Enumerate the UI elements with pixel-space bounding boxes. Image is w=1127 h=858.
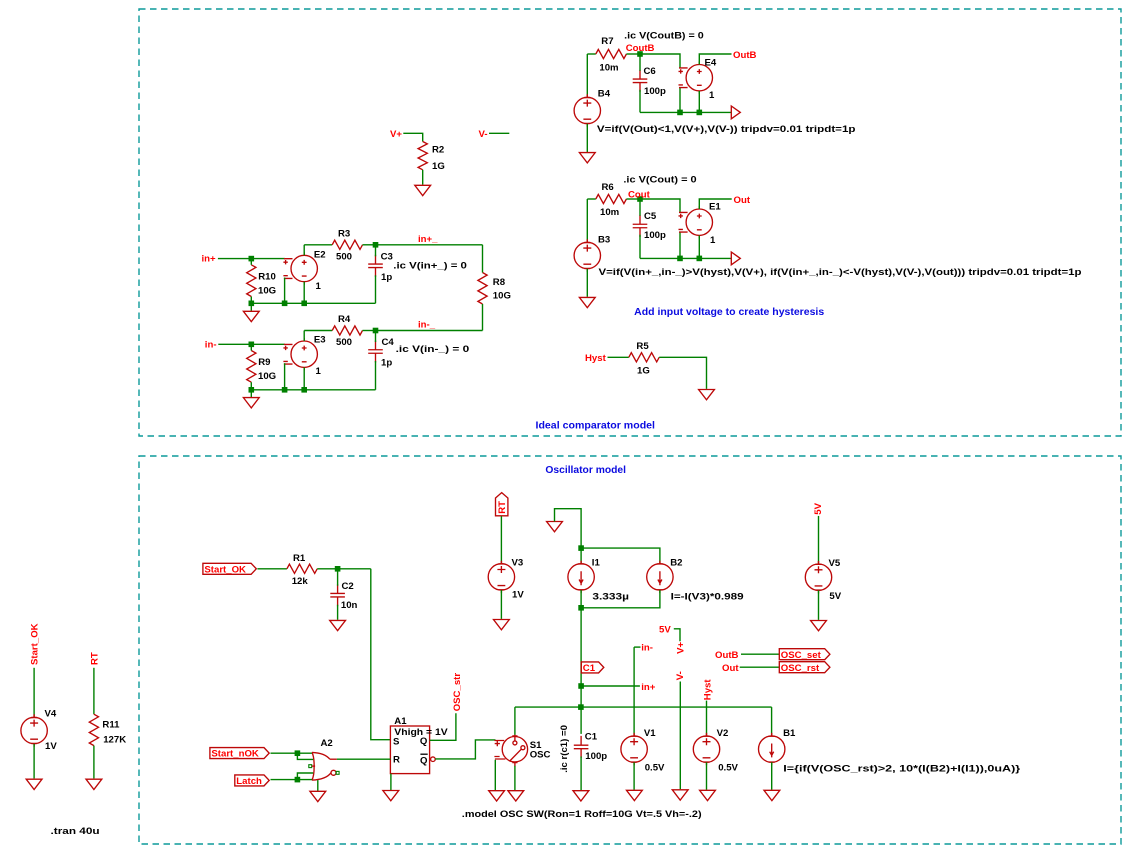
ground V4: [26, 779, 42, 789]
resistor R9: [247, 351, 256, 383]
vcvs E4: [679, 62, 713, 94]
wire in+ to E2 control+: [251, 258, 284, 260]
ground B3: [579, 297, 595, 307]
wire to B2 top: [581, 548, 660, 564]
junction in+_: [373, 242, 379, 248]
junction rail E1 out-: [697, 256, 703, 262]
wire R9 bottom lead: [250, 382, 252, 390]
vcvs E1: [679, 206, 713, 238]
ground S1: [508, 791, 524, 801]
ground V- net: [672, 790, 688, 800]
vcvs E2: [283, 252, 317, 284]
wire E4 out+ to OutB: [699, 54, 731, 64]
voltage source V4: [21, 714, 47, 746]
wire E2 out- down: [303, 282, 305, 304]
svg-text:R8: R8: [493, 277, 506, 288]
wire B3- to ground: [586, 269, 588, 297]
current source B2: [647, 561, 673, 593]
wire R10 top lead: [250, 259, 252, 265]
wire to in+ label: [581, 685, 640, 687]
svg-text:10G: 10G: [258, 286, 276, 297]
ground A2: [310, 791, 326, 801]
wire CoutB to C6: [639, 54, 641, 71]
svg-text:10m: 10m: [600, 207, 619, 218]
junction I1 B2 top: [578, 545, 584, 551]
svg-text:C6: C6: [644, 66, 656, 77]
wire RT to V3: [500, 516, 502, 564]
svg-text:0.5V: 0.5V: [645, 762, 665, 773]
svg-text:R1: R1: [293, 553, 306, 564]
svg-text:V=if(V(Out)<1,V(V+),V(V-)) tri: V=if(V(Out)<1,V(V+),V(V-)) tripdv=0.01 t…: [597, 124, 856, 135]
wire A1 Q to OSC_str: [430, 713, 456, 740]
svg-text:RT: RT: [497, 501, 508, 514]
svg-text:OutB: OutB: [715, 650, 739, 661]
wire in-_ to R8: [376, 330, 483, 332]
svg-text:Cout: Cout: [628, 190, 651, 201]
svg-text:0.5V: 0.5V: [718, 762, 738, 773]
port flag Start_nOK: [210, 748, 269, 760]
svg-text:Out: Out: [734, 195, 751, 206]
junction R9 gnd rail: [249, 387, 255, 393]
junction E3 out- rail: [301, 387, 307, 393]
wire R2 to ground: [422, 170, 424, 185]
port flag Start_OK: [203, 563, 256, 575]
wire V+ to R2: [403, 133, 422, 141]
wire in+ to R10: [218, 258, 251, 260]
svg-text:Start_OK: Start_OK: [204, 564, 246, 575]
wire oscillator rail: [515, 706, 772, 708]
wire E3 control- down: [284, 363, 286, 390]
wire E1 control- to rail: [679, 232, 681, 258]
wire A1 ground lead: [390, 774, 392, 790]
svg-text:R6: R6: [602, 182, 614, 193]
svg-text:R2: R2: [432, 145, 444, 156]
ground C2: [330, 620, 346, 630]
svg-text:.ic r(c1) =0: .ic r(c1) =0: [559, 725, 570, 773]
wire Start_nOK to A2 input1: [271, 752, 312, 754]
junction rail E1 control-: [677, 256, 683, 262]
current source B1: [759, 733, 785, 765]
wire E4 out- to rail: [698, 91, 700, 112]
ground R2: [415, 185, 431, 195]
junction in-_: [373, 328, 379, 334]
capacitor C6: [633, 70, 648, 92]
svg-text:C2: C2: [342, 581, 354, 592]
resistor R8: [478, 273, 487, 305]
junction in+ R10: [249, 256, 255, 262]
svg-text:1p: 1p: [381, 357, 392, 368]
svg-text:R: R: [393, 755, 400, 766]
svg-text:V2: V2: [717, 728, 729, 739]
vcvs E3: [283, 338, 317, 370]
svg-text:R5: R5: [636, 341, 649, 352]
svg-text:Hyst: Hyst: [703, 679, 714, 701]
svg-text:.ic V(CoutB) = 0: .ic V(CoutB) = 0: [624, 31, 704, 42]
wire R10 bottom lead: [250, 297, 252, 304]
wire Latch to A2 input4: [297, 773, 313, 780]
wire C3 to rail: [375, 275, 377, 303]
svg-text:C4: C4: [382, 337, 395, 348]
svg-text:I1: I1: [592, 558, 601, 569]
svg-text:OSC_set: OSC_set: [781, 650, 822, 661]
svg-text:10G: 10G: [493, 291, 511, 302]
wire in- to E3 control+: [251, 343, 284, 345]
ground V5: [811, 621, 827, 631]
wire V1 to ground: [633, 762, 635, 790]
output arrow B3 section: [731, 252, 740, 265]
capacitor C4: [368, 341, 383, 363]
svg-text:500: 500: [336, 252, 352, 263]
svg-text:V3: V3: [512, 558, 524, 569]
voltage source V2: [693, 733, 719, 765]
svg-text:OSC: OSC: [530, 749, 551, 760]
resistor R3: [332, 240, 362, 249]
wire E2 control- down: [284, 278, 286, 304]
wire C2 node to A1 S input: [371, 569, 391, 740]
svg-text:V+: V+: [676, 642, 687, 654]
wire Cout to C5: [639, 199, 641, 216]
port flag RT: [496, 493, 509, 516]
svg-text:R9: R9: [258, 357, 270, 368]
svg-text:R11: R11: [102, 719, 120, 730]
svg-text:5V: 5V: [829, 591, 841, 602]
svg-text:OutB: OutB: [733, 50, 757, 61]
svg-text:.ic V(in+_) = 0: .ic V(in+_) = 0: [393, 261, 467, 272]
wire R9 top lead: [250, 344, 252, 350]
wire V- stub: [489, 132, 509, 134]
wire Hyst to R5: [608, 356, 629, 358]
wire E3 out+ up: [303, 331, 305, 342]
wire in+_ to C3: [375, 245, 377, 256]
svg-text:A2: A2: [321, 738, 333, 749]
wire A1 Qbar to S1 control+: [435, 740, 495, 759]
capacitor C1: [574, 736, 589, 758]
ground C1: [573, 791, 589, 801]
svg-text:S: S: [393, 737, 400, 748]
wire bottom rail B4 section: [640, 111, 731, 113]
svg-text:1: 1: [710, 235, 716, 246]
port flag OSC_set: [779, 649, 830, 661]
svg-text:.tran 40u: .tran 40u: [51, 826, 100, 837]
svg-text:5V: 5V: [813, 502, 824, 514]
svg-text:E1: E1: [709, 202, 721, 213]
oscillator model bounding box: [139, 456, 1121, 844]
svg-text:.model OSC SW(Ron=1 Roff=10G V: .model OSC SW(Ron=1 Roff=10G Vt=.5 Vh=-.…: [462, 809, 702, 820]
junction E2 control- rail: [282, 301, 288, 307]
wire E4 control- to rail: [679, 88, 681, 113]
wire E3 out- down: [303, 367, 305, 389]
svg-text:V1: V1: [644, 728, 656, 739]
ground B4: [579, 153, 595, 163]
svg-text:C5: C5: [644, 211, 657, 222]
resistor R1: [287, 564, 317, 573]
svg-text:R7: R7: [601, 36, 613, 47]
svg-text:10G: 10G: [258, 371, 276, 382]
svg-text:in-_: in-_: [418, 320, 436, 331]
wire E2 out+ up: [303, 245, 305, 256]
ground E3 section: [243, 398, 259, 408]
svg-text:100p: 100p: [644, 230, 666, 241]
svg-text:OSC_rst: OSC_rst: [781, 663, 820, 674]
resistor R7: [596, 49, 627, 58]
svg-text:12k: 12k: [292, 576, 309, 587]
svg-text:I=-I(V3)*0.989: I=-I(V3)*0.989: [671, 592, 744, 603]
junction R1 C2: [335, 566, 341, 572]
wire C2 to ground: [337, 605, 339, 620]
capacitor C2: [330, 584, 345, 606]
wire R8 bottom lead: [482, 304, 484, 331]
or-gate A2: [309, 752, 339, 780]
svg-text:Ideal comparator model: Ideal comparator model: [536, 421, 656, 432]
flip-flop A1: [390, 716, 448, 774]
wire node to C2: [337, 569, 339, 586]
svg-text:Latch: Latch: [236, 776, 262, 787]
svg-text:1: 1: [316, 281, 322, 292]
wire ground rail E3 section: [251, 389, 375, 391]
wire R7 to CoutB node: [626, 53, 640, 55]
wire A2 out to A1 R input: [337, 758, 391, 760]
ground R11: [86, 779, 102, 789]
wire B1 to ground: [771, 762, 773, 790]
wire ground hook to I1: [555, 509, 582, 564]
svg-text:V4: V4: [45, 708, 57, 719]
current source I1: [568, 561, 594, 593]
wire C1 to ground: [580, 756, 582, 790]
wire E2 to R3: [304, 244, 332, 246]
wire R6 to Cout node: [626, 198, 640, 200]
wire V4 to ground: [33, 744, 35, 779]
capacitor C5: [633, 215, 648, 237]
svg-text:A1: A1: [394, 716, 407, 727]
junction Start_nOK: [295, 750, 301, 756]
wire V3 to ground: [500, 590, 502, 619]
wire OutB to OSC_set: [741, 653, 779, 655]
ground V3: [494, 620, 510, 630]
svg-text:I={if(V(OSC_rst)>2, 10*(I(B2)+: I={if(V(OSC_rst)>2, 10*(I(B2)+I(I1)),0uA…: [783, 763, 1020, 774]
wire S1 top to rail: [514, 707, 516, 735]
junction rail C1: [578, 704, 584, 710]
svg-text:C3: C3: [381, 252, 393, 263]
ground E2 section: [243, 311, 259, 321]
svg-text:R4: R4: [338, 314, 351, 325]
svg-text:OSC_str: OSC_str: [452, 673, 463, 712]
svg-text:R3: R3: [338, 228, 350, 239]
wire C5 to rail: [639, 235, 641, 259]
wire A2 ground lead: [317, 780, 319, 791]
junction Latch: [295, 777, 301, 783]
wire B3 to R6: [587, 198, 596, 200]
resistor R4: [332, 326, 362, 335]
svg-text:in-: in-: [641, 643, 653, 654]
wire V- to ground: [679, 682, 681, 790]
svg-text:Hyst: Hyst: [585, 353, 607, 364]
wire V5 to ground: [818, 590, 820, 620]
svg-text:100p: 100p: [585, 751, 607, 762]
wire in- to V1: [633, 647, 635, 736]
wire Start_OK to V4: [33, 668, 35, 717]
wire Out to OSC_rst: [740, 666, 780, 668]
wire to B3+: [586, 199, 588, 242]
wire B2 bottom: [581, 590, 660, 608]
svg-text:1p: 1p: [381, 272, 392, 283]
wire bottom rail B3 section: [640, 257, 731, 259]
wire Hyst to V2: [706, 701, 708, 736]
wire 5V to V+ label: [674, 629, 680, 642]
ground A1: [383, 791, 399, 801]
wire to ground E2 section: [250, 303, 252, 311]
wire B4 to R7: [587, 53, 596, 55]
junction in- R9: [249, 342, 255, 348]
wire CoutB to E4 control+: [640, 54, 680, 68]
svg-text:3.333µ: 3.333µ: [592, 592, 629, 603]
wire in-_ to C4: [375, 331, 377, 343]
svg-text:V-: V-: [479, 129, 488, 140]
port flag OSC_rst: [779, 662, 830, 674]
svg-text:Out: Out: [722, 663, 739, 674]
behavioral source B3: [574, 239, 600, 271]
wire ground rail E2 section: [251, 302, 375, 304]
resistor R11: [89, 714, 98, 745]
ground V1: [627, 790, 643, 800]
junction rail E4 control-: [677, 110, 683, 116]
svg-text:5V: 5V: [659, 625, 671, 636]
wire S1 bottom to ground: [514, 766, 516, 790]
junction E3 control- rail: [282, 387, 288, 393]
voltage source V3: [488, 561, 514, 593]
wire C1 net vertical: [580, 608, 582, 734]
comparator model bounding box: [139, 9, 1121, 436]
wire R3 to in+_ node: [363, 244, 376, 246]
svg-text:C1: C1: [585, 732, 598, 743]
wire E1 out- to rail: [698, 236, 700, 259]
junction R10 gnd rail: [249, 301, 255, 307]
svg-text:in+_: in+_: [418, 234, 438, 245]
ground V2: [700, 790, 716, 800]
svg-text:10n: 10n: [341, 600, 358, 611]
wire E3 to R4: [304, 330, 332, 332]
svg-text:1V: 1V: [45, 741, 57, 752]
wire R8 top lead: [482, 245, 484, 273]
wire R11 to ground: [93, 746, 95, 779]
junction I1 B2 bottom: [578, 605, 584, 611]
port flag C1: [581, 662, 604, 674]
svg-text:Oscillator model: Oscillator model: [545, 465, 626, 476]
resistor R2: [418, 142, 427, 170]
wire Start_nOK to A2 input2: [297, 753, 313, 759]
output arrow B4 section: [731, 106, 740, 119]
wire in- to R9: [218, 343, 251, 345]
wire RT to R11: [93, 668, 95, 714]
svg-text:10m: 10m: [599, 63, 618, 74]
svg-text:E4: E4: [705, 58, 717, 69]
junction E2 out- rail: [301, 301, 307, 307]
wire V2 to ground: [706, 762, 708, 790]
svg-text:B4: B4: [598, 88, 611, 99]
svg-text:V-: V-: [675, 671, 686, 680]
svg-text:R10: R10: [258, 272, 276, 283]
voltage source V1: [621, 733, 647, 765]
svg-text:V5: V5: [829, 558, 841, 569]
ground I1 hook: [547, 522, 563, 532]
svg-text:CoutB: CoutB: [626, 43, 655, 54]
svg-text:Start_nOK: Start_nOK: [211, 749, 259, 760]
svg-text:1V: 1V: [512, 590, 524, 601]
resistor R10: [247, 265, 256, 297]
resistor R5: [629, 353, 659, 362]
wire R5 to ground: [659, 357, 706, 389]
svg-text:B2: B2: [670, 558, 682, 569]
wire C4 to rail: [375, 361, 377, 390]
junction CoutB: [637, 51, 643, 57]
wire rail to B1: [771, 707, 773, 736]
svg-text:E3: E3: [314, 334, 326, 345]
wire R1 to C2 node: [317, 568, 371, 570]
wire B4- to ground: [586, 124, 588, 152]
junction Cout: [637, 196, 643, 202]
capacitor C3: [368, 255, 383, 277]
svg-text:E2: E2: [314, 250, 326, 261]
wire 5V to V5: [818, 516, 820, 564]
svg-text:.ic V(Cout) = 0: .ic V(Cout) = 0: [623, 174, 696, 185]
wire to B4+: [586, 54, 588, 97]
svg-text:1G: 1G: [637, 365, 650, 376]
wire E1 out+ to Out: [699, 199, 731, 209]
behavioral source B4: [574, 94, 600, 126]
svg-text:V=if(V(in+_,in-_)>V(hyst),V(V+: V=if(V(in+_,in-_)>V(hyst),V(V+), if(V(in…: [599, 267, 1082, 278]
svg-text:B1: B1: [783, 728, 796, 739]
svg-text:Vhigh = 1V: Vhigh = 1V: [394, 727, 448, 738]
svg-text:RT: RT: [89, 652, 100, 665]
ground B1: [764, 790, 780, 800]
svg-text:Start_OK: Start_OK: [30, 623, 41, 665]
svg-text:in-: in-: [205, 340, 217, 351]
ground S1 control: [489, 791, 505, 801]
switch S1: [494, 735, 527, 767]
wire C6 to rail: [639, 90, 641, 113]
svg-text:100p: 100p: [644, 86, 666, 97]
wire in+_ to R8: [376, 244, 483, 246]
port flag Latch: [235, 775, 269, 787]
svg-text:.ic V(in-_) = 0: .ic V(in-_) = 0: [396, 344, 470, 355]
wire Latch to A2 input5: [271, 779, 313, 781]
svg-text:1: 1: [709, 90, 715, 101]
junction in+ tap: [578, 683, 584, 689]
wire to ground E3 section: [250, 390, 252, 397]
wire in- stub: [634, 646, 640, 648]
wire R4 to in-_ node: [363, 330, 376, 332]
wire I1 bottom: [580, 590, 582, 608]
wire Start_OK to R1: [257, 568, 287, 570]
svg-text:Q: Q: [420, 755, 428, 766]
resistor R6: [596, 194, 627, 203]
svg-text:1G: 1G: [432, 161, 445, 172]
ground R5: [699, 390, 715, 400]
wire Cout to E1 control+: [640, 199, 680, 212]
svg-text:B3: B3: [598, 234, 610, 245]
voltage source V5: [805, 561, 831, 593]
svg-text:V+: V+: [390, 129, 402, 140]
svg-text:500: 500: [336, 337, 352, 348]
wire S1 control- to ground: [494, 760, 496, 790]
svg-text:C1: C1: [583, 663, 596, 674]
svg-text:127K: 127K: [103, 734, 126, 745]
junction rail E4 out-: [697, 110, 703, 116]
svg-text:in+: in+: [202, 254, 217, 265]
svg-text:in+: in+: [641, 682, 656, 693]
svg-text:Add input voltage to create hy: Add input voltage to create hysteresis: [634, 307, 824, 318]
svg-text:1: 1: [316, 366, 322, 377]
